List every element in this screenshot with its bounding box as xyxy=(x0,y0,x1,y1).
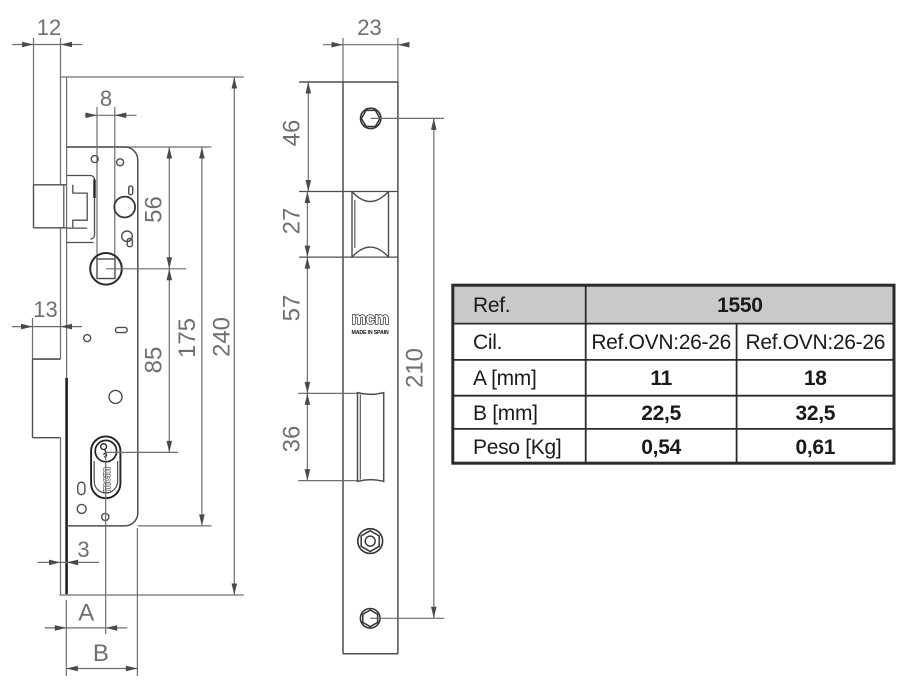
svg-text:0,61: 0,61 xyxy=(795,436,835,459)
svg-text:Cil.: Cil. xyxy=(473,331,502,354)
faceplate bottom baseline xyxy=(59,594,243,596)
faceplate frontal outline xyxy=(299,82,398,654)
svg-text:46: 46 xyxy=(279,120,306,147)
dimension 8 follower square xyxy=(85,86,137,259)
cylinder centrelines xyxy=(106,452,179,634)
svg-text:23: 23 xyxy=(357,15,381,40)
hex screw middle xyxy=(358,529,383,554)
svg-text:3: 3 xyxy=(77,537,89,562)
table row A xyxy=(473,367,827,390)
svg-text:32,5: 32,5 xyxy=(795,402,835,425)
faceplate back line xyxy=(66,77,68,595)
hole xyxy=(109,390,122,403)
dimension 175 case height xyxy=(174,147,205,526)
latch mechanism internals xyxy=(67,176,95,243)
svg-text:MADE IN SPAIN: MADE IN SPAIN xyxy=(351,330,388,336)
svg-text:210: 210 xyxy=(402,348,429,388)
svg-text:56: 56 xyxy=(141,196,168,223)
mcm logo xyxy=(351,310,388,328)
svg-text:mcm: mcm xyxy=(101,467,113,493)
mcm label vertical xyxy=(101,467,113,493)
euro cylinder xyxy=(91,436,120,498)
key glyph xyxy=(101,444,107,458)
dimension B xyxy=(66,528,137,676)
follower centreline xyxy=(106,268,186,270)
deadbolt window lines xyxy=(298,393,357,480)
screw hole xyxy=(91,156,98,163)
svg-text:A: A xyxy=(78,600,94,627)
dimension 56 and 85 xyxy=(141,147,173,452)
svg-text:11: 11 xyxy=(650,367,672,390)
dimension 57 xyxy=(279,257,311,393)
svg-text:8: 8 xyxy=(100,86,112,111)
svg-text:mcm: mcm xyxy=(351,310,388,328)
hex screw top xyxy=(361,108,445,128)
svg-text:85: 85 xyxy=(141,347,168,374)
hex screw bottom xyxy=(360,609,444,629)
case bottom extension xyxy=(138,525,212,527)
fixing hole xyxy=(102,513,109,520)
svg-text:0,54: 0,54 xyxy=(641,436,681,459)
lock case top edge line xyxy=(67,146,212,148)
table grid xyxy=(453,285,894,463)
latch bolt protruding xyxy=(34,185,67,228)
table row B xyxy=(473,402,836,425)
svg-text:240: 240 xyxy=(209,317,236,357)
svg-text:Ref.: Ref. xyxy=(473,294,510,317)
svg-text:13: 13 xyxy=(33,297,57,322)
svg-text:36: 36 xyxy=(279,426,306,453)
svg-text:Ref.OVN:26-26: Ref.OVN:26-26 xyxy=(591,331,731,354)
dimension A backset xyxy=(45,600,128,677)
svg-text:Ref.OVN:26-26: Ref.OVN:26-26 xyxy=(745,331,885,354)
svg-text:B [mm]: B [mm] xyxy=(473,402,538,425)
deadbolt protruding xyxy=(33,359,61,438)
hub circle xyxy=(114,197,135,218)
svg-text:1550: 1550 xyxy=(717,294,763,317)
dimension 36 xyxy=(279,393,311,480)
svg-text:57: 57 xyxy=(279,295,306,322)
made in spain label xyxy=(351,330,388,336)
svg-text:Peso [Kg]: Peso [Kg] xyxy=(473,436,561,459)
dimension 210 xyxy=(402,118,437,618)
dimension 240 faceplate height xyxy=(209,77,238,595)
table row Peso xyxy=(473,436,836,459)
svg-text:A [mm]: A [mm] xyxy=(473,367,537,390)
dimension 12 latch projection xyxy=(12,15,83,185)
table row Ref xyxy=(473,294,763,317)
svg-text:27: 27 xyxy=(279,208,306,235)
small slot xyxy=(129,186,133,195)
svg-text:22,5: 22,5 xyxy=(641,402,681,425)
dimension 46 xyxy=(279,82,312,192)
svg-text:12: 12 xyxy=(37,15,61,40)
roller xyxy=(352,192,389,258)
faceplate top edge line xyxy=(61,76,244,78)
spindle follower xyxy=(90,253,122,285)
screw hole xyxy=(84,335,91,342)
faceplate front line xyxy=(60,77,62,595)
svg-text:18: 18 xyxy=(804,367,827,390)
dimension 27 xyxy=(279,192,311,258)
svg-text:175: 175 xyxy=(174,318,201,358)
roller cutout lines xyxy=(299,192,398,258)
small slot xyxy=(116,327,128,332)
screw hole xyxy=(117,159,124,166)
dimension 3 faceplate thickness xyxy=(38,537,99,565)
lock case outline xyxy=(67,147,138,526)
keyhole opening xyxy=(122,231,133,247)
dimension 13 deadbolt throw xyxy=(12,297,82,359)
dimension 23 faceplate width xyxy=(323,15,409,82)
table row Cil xyxy=(473,331,885,354)
small slot xyxy=(78,482,85,495)
deadbolt frontal xyxy=(358,393,384,482)
svg-text:B: B xyxy=(93,640,109,667)
screw hole xyxy=(77,504,86,513)
